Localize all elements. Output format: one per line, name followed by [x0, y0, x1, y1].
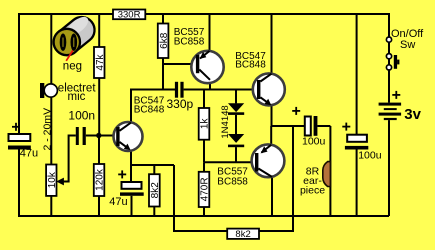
transistor Q3 BC547 output npn [253, 73, 285, 105]
wire feedback left leg [174, 165, 227, 231]
wire 100u out to earpiece [317, 125, 330, 127]
wire earpiece column [329, 126, 331, 216]
resistor 8k2 feedback [227, 229, 259, 241]
svg-text:330p: 330p [167, 97, 194, 111]
resistor 1k [199, 108, 211, 140]
capacitor 330p [167, 82, 194, 111]
resistor 470R [199, 172, 211, 207]
resistor 6k8 [158, 24, 170, 59]
wire diode column [235, 90, 237, 104]
svg-text:6k8: 6k8 [159, 32, 170, 49]
microphone picture [49, 12, 100, 60]
switch On/Off [386, 37, 399, 70]
wire 1k leads [203, 90, 205, 109]
wire top rail [18, 13, 389, 15]
wire T3 emitter to output node [271, 105, 273, 126]
capacitor 100u output [292, 107, 325, 148]
wire 47u mid bottom lead [131, 196, 133, 216]
wire 47k bottom lead to base node [98, 78, 100, 136]
svg-text:470R: 470R [200, 177, 211, 201]
svg-text:47u: 47u [109, 196, 127, 208]
svg-text:1N4148: 1N4148 [220, 105, 231, 138]
svg-text:BC848: BC848 [134, 105, 165, 116]
wire left rail lower [18, 149, 20, 216]
svg-text:BC858: BC858 [217, 176, 248, 187]
transistor Q1 BC547 input [114, 122, 143, 151]
resistor 120k [94, 164, 106, 196]
diode D2 1N4148 [228, 134, 244, 147]
resistor 8k2 vertical [149, 174, 161, 206]
capacitor 100u supply [342, 123, 381, 162]
battery 3v [379, 91, 402, 120]
wire 47u mid top lead [130, 165, 132, 182]
wire T4 emitter lead [270, 126, 272, 145]
svg-text:BC858: BC858 [174, 37, 205, 48]
wire T2 collector down [209, 80, 211, 90]
svg-text:2 - 20mV: 2 - 20mV [41, 108, 53, 151]
wire base row T4 at y162.3 [204, 161, 255, 163]
diode D1 1N4148 [228, 103, 244, 115]
svg-text:neg: neg [63, 61, 82, 73]
svg-text:10k: 10k [47, 171, 58, 188]
electret mic symbol [40, 83, 57, 98]
svg-text:100u: 100u [358, 150, 382, 162]
svg-text:100n: 100n [68, 109, 95, 123]
svg-text:BC848: BC848 [235, 60, 266, 71]
wire pot bottom lead [50, 196, 52, 216]
resistor 47k [94, 47, 106, 78]
potentiometer 10k [46, 165, 64, 196]
svg-text:8k2: 8k2 [150, 182, 161, 199]
svg-text:3v: 3v [404, 106, 421, 123]
wire 6k8 bottom lead [162, 58, 164, 90]
wire 120k leads [98, 136, 100, 165]
wire left rail upper [18, 13, 20, 135]
wire feedback right leg [259, 126, 293, 231]
svg-text:100u: 100u [302, 136, 326, 148]
capacitor 47u left [8, 123, 38, 160]
wire node row at y89.5 [184, 89, 257, 91]
wire mic column [50, 14, 52, 165]
wire T3 collector to rail [271, 14, 273, 74]
wire 47k top lead [98, 14, 100, 47]
junction dot base node [96, 133, 101, 138]
wire battery column [388, 13, 390, 103]
svg-text:1k: 1k [200, 118, 211, 130]
capacitor 100n [68, 109, 95, 145]
wire wiper to 100n [64, 136, 76, 182]
red lead mark to neg pin [66, 51, 73, 61]
wire T2 base branch [163, 63, 196, 65]
svg-text:Sw: Sw [400, 39, 415, 51]
wire 8k2 vertical leads [153, 165, 155, 174]
transistor Q4 BC557 output pnp [252, 144, 285, 177]
wire 6k8 top lead [162, 14, 164, 24]
wire 100u-v column from rail [356, 14, 358, 134]
svg-text:120k: 120k [95, 168, 106, 191]
transistor Q2 BC557 [191, 51, 223, 83]
wire T4 collector to rail [271, 177, 273, 216]
svg-text:330R: 330R [118, 10, 141, 21]
wire T1 emitter down [130, 150, 132, 165]
wire emitter node horizontal [131, 164, 174, 166]
svg-text:mic: mic [68, 91, 86, 103]
wire T2 emitter from rail [209, 14, 211, 51]
wire output node to 100u [272, 125, 305, 127]
svg-text:8k2: 8k2 [235, 229, 250, 240]
wire 100n to base node [86, 135, 117, 137]
svg-text:47k: 47k [95, 53, 106, 70]
wire 470R leads [203, 162, 205, 172]
svg-text:piece: piece [300, 184, 325, 196]
capacitor 47u emitter [109, 170, 143, 207]
wire bottom rail [18, 215, 389, 217]
earpiece symbol [323, 162, 331, 187]
svg-text:47u: 47u [20, 147, 38, 159]
resistor 330R [113, 10, 145, 21]
wire T1 collector up to node [131, 90, 175, 123]
